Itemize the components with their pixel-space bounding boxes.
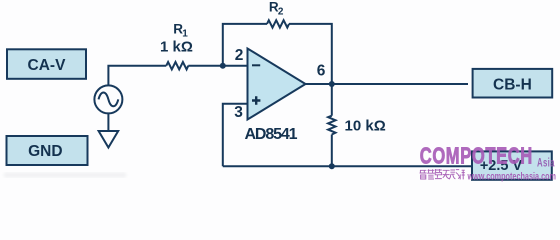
svg-text:CB-H: CB-H — [493, 76, 532, 93]
svg-text:CA-V: CA-V — [28, 57, 67, 74]
wire: pin3 input — [223, 104, 248, 167]
plus sign pin3 — [252, 96, 260, 104]
watermark COMPOTECH — [420, 144, 533, 169]
node bottom junction dot — [329, 163, 335, 169]
resistor 10k vertical — [328, 116, 335, 135]
label R1 — [173, 21, 188, 39]
svg-text:3: 3 — [234, 104, 243, 121]
node A junction dot — [220, 63, 226, 69]
svg-text:2: 2 — [278, 7, 284, 18]
svg-text:COMPOTECH: COMPOTECH — [420, 144, 533, 169]
label R2 — [269, 0, 284, 18]
op-amp U1 AD8541 — [248, 49, 306, 120]
wire: feedback top to output column — [289, 24, 332, 84]
wire: R1 to op-amp pin2 — [188, 65, 247, 67]
source V1 sine generator — [94, 85, 122, 113]
wire: bottom rail — [223, 165, 471, 167]
scan smear artifact — [4, 173, 126, 178]
terminal box CA-V — [7, 49, 86, 79]
svg-text:10 kΩ: 10 kΩ — [345, 118, 386, 135]
sine wave glyph — [99, 93, 119, 107]
wire: output to CB-H — [306, 83, 469, 85]
node output junction dot — [329, 81, 335, 87]
svg-text:1 kΩ: 1 kΩ — [160, 39, 193, 56]
svg-text:GND: GND — [28, 143, 62, 160]
terminal box +2.5V — [472, 151, 552, 179]
minus sign pin2 — [252, 64, 260, 66]
svg-text:AD8541: AD8541 — [245, 126, 298, 143]
wire: source top to R1 — [108, 66, 166, 86]
resistor R1 — [166, 62, 188, 69]
terminal box CB-H — [473, 69, 553, 98]
watermark CJK tagline (drawn) — [420, 169, 465, 179]
wire: output down to 10k — [331, 84, 333, 116]
wire: source to ground — [107, 113, 109, 131]
wire: 10k to bottom rail — [331, 135, 333, 167]
wire: feedback left riser — [223, 24, 267, 66]
svg-text:Asia: Asia — [537, 157, 555, 170]
svg-text:6: 6 — [317, 63, 326, 80]
svg-text:www.compotechasia.com: www.compotechasia.com — [467, 170, 556, 182]
terminal box GND — [7, 136, 88, 165]
svg-text:2: 2 — [235, 47, 244, 64]
resistor R2 — [267, 20, 289, 27]
ground — [99, 131, 119, 148]
